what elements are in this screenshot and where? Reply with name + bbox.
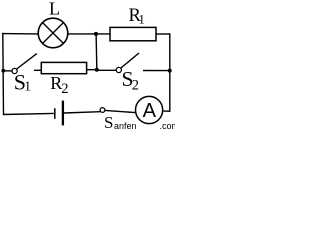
- svg-text:S: S: [104, 113, 113, 130]
- wire ammeter to right corner: [163, 110, 170, 112]
- svg-text:1: 1: [138, 12, 145, 27]
- wire left vertical: [2, 33, 5, 115]
- svg-text:A: A: [143, 100, 157, 122]
- wire top-left from corner to lamp: [2, 33, 38, 35]
- switch S: [100, 108, 135, 113]
- svg-text:.com: .com: [160, 121, 176, 130]
- svg-text:anfen: anfen: [114, 121, 137, 130]
- resistor R2: [41, 62, 86, 73]
- wire battery to S: [64, 112, 100, 113]
- wire lamp to R1: [68, 33, 111, 35]
- svg-text:2: 2: [61, 81, 68, 97]
- wire R1 to right corner: [156, 33, 170, 35]
- resistor R1: [110, 27, 156, 40]
- node right tee: [168, 69, 172, 73]
- node S1 tee: [1, 69, 5, 73]
- lamp L: [38, 18, 68, 48]
- wire right vertical: [169, 33, 171, 112]
- node junction top: [94, 32, 98, 36]
- wire middle vertical: [95, 34, 98, 70]
- switch S2: [97, 53, 170, 73]
- svg-text:2: 2: [132, 77, 139, 93]
- wire R2 to middle node: [87, 69, 97, 71]
- svg-text:L: L: [49, 0, 60, 19]
- wire S1 to R2: [34, 69, 42, 71]
- wire bottom-left: [3, 113, 53, 114]
- switch S1: [3, 54, 37, 74]
- battery cell: [55, 101, 63, 126]
- svg-text:1: 1: [24, 78, 31, 93]
- ammeter A: [136, 96, 163, 123]
- node junction middle: [95, 68, 99, 72]
